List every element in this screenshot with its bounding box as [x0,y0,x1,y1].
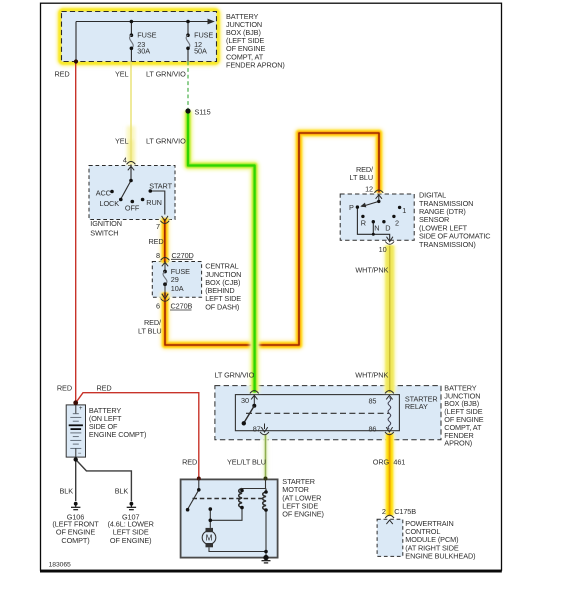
svg-text:87: 87 [253,424,261,433]
svg-text:4: 4 [123,155,127,164]
svg-text:183065: 183065 [49,562,71,569]
glow blob at ignition pin 4 [127,126,136,165]
svg-text:7: 7 [156,222,160,231]
svg-text:461: 461 [393,458,405,467]
starter relay outer box [215,386,441,440]
wire labels below relay [182,458,405,467]
relay dashed link [246,412,389,414]
contact N [372,220,375,223]
svg-text:2: 2 [382,507,386,516]
battery junction box BJB (top, highlighted) [62,12,217,62]
svg-text:OF ENGINE): OF ENGINE) [282,510,324,519]
svg-text:D: D [385,224,390,233]
svg-text:P: P [349,203,354,212]
starter motor entry dot YEL/LT BLU [264,477,268,481]
svg-text:FENDER APRON): FENDER APRON) [226,60,285,69]
connector C175B [394,507,416,516]
battery junction dot top [73,400,78,405]
wire WHT/PNK highlighted (DTR pin 10 to relay pin 85) [384,246,396,393]
svg-text:LT BLU: LT BLU [138,327,161,336]
border frame [40,3,502,571]
svg-text:OFF: OFF [125,203,140,212]
junction dot starter bottom rail [264,550,268,554]
DTR position labels [349,203,406,233]
winding end dots [240,489,268,512]
ignition pivot dot [129,179,133,183]
contact P [356,205,359,208]
DTR sensor box [340,194,414,240]
svg-text:M: M [206,534,213,543]
svg-text:−: − [78,451,82,457]
svg-text:30: 30 [241,396,249,405]
relay pin 85 connector [385,391,394,400]
ground G107 [127,502,136,510]
wire RED (BJB to battery) [75,64,77,403]
G107 caption [108,512,154,544]
svg-text:YEL: YEL [115,70,129,79]
relay caption [405,395,438,412]
starter motor internals [188,479,266,558]
CJB caption [205,262,241,312]
RUN contact [141,198,145,202]
svg-text:FUSE: FUSE [137,30,156,39]
motor M [202,528,216,547]
svg-text:RED: RED [57,383,72,392]
relay pin 87 connector [260,424,269,435]
svg-text:ENGINE BULKHEAD): ENGINE BULKHEAD) [405,551,475,560]
fuse F23 30A [130,30,157,55]
svg-text:29: 29 [171,275,179,284]
pin 8 label and connector C270D [156,251,194,260]
wire RED (battery to starter motor) [76,393,199,478]
pin 8 connector symbol [161,258,170,272]
battery internals [69,405,83,457]
svg-text:86: 86 [368,424,376,433]
svg-text:OF ENGINE): OF ENGINE) [110,536,152,545]
wire ORG 461 highlighted (relay pin 86 to PCM pin 2) [385,434,395,516]
PCM box [377,519,403,556]
svg-text:YEL/LT BLU: YEL/LT BLU [227,458,266,467]
contact D [382,220,385,223]
solenoid winding 1 [241,489,243,491]
wire LT GRN/VIO highlighted (S115 to relay pin 30) [188,111,255,393]
OFF contact [131,200,135,204]
G106 caption [52,512,99,544]
svg-text:LT GRN/VIO: LT GRN/VIO [146,70,186,79]
junction dot N line [372,233,375,236]
starter ground [262,555,271,563]
svg-text:30A: 30A [137,46,150,55]
contact 1 [398,206,401,209]
pin 6 connector symbol [161,284,170,301]
ignition switch caption [90,219,122,238]
DTR lever arrowhead [361,203,366,207]
svg-text:N: N [374,224,379,233]
svg-text:RED: RED [149,237,164,246]
relay pin 30 connector [250,391,259,406]
svg-text:LOCK: LOCK [100,199,120,208]
pin 4 connector [127,162,136,171]
svg-text:RED: RED [182,458,197,467]
relay switch [242,404,257,426]
wire BLK (battery to G107) [76,460,132,502]
contact 2 [392,215,395,218]
fuse F12 50A [186,30,213,55]
ACC contact [110,190,114,194]
svg-text:S115: S115 [195,107,211,116]
svg-text:C270D: C270D [172,251,194,260]
wire color labels row 2 [115,137,186,146]
PCM caption [405,519,475,560]
starter motor entry dot RED [197,477,201,481]
battery box [66,405,85,457]
svg-text:LT GRN/VIO: LT GRN/VIO [146,137,186,146]
relay coil [388,398,391,430]
svg-text:YEL: YEL [115,137,129,146]
contact R [361,215,364,218]
wire YEL (BJB fuse 23 to ignition pin 4) [130,62,132,163]
svg-text:10A: 10A [171,284,184,293]
svg-text:C175B: C175B [394,507,416,516]
fuse F29 10A (CJB) [163,267,190,293]
wire label RED/LT BLU (above DTR) [350,165,375,182]
svg-text:6: 6 [156,301,160,310]
svg-text:2: 2 [395,219,399,228]
svg-text:ACC: ACC [96,188,111,197]
battery bottom junction dot [74,457,78,461]
svg-text:TRANSMISSION): TRANSMISSION) [419,240,476,249]
junction dot fuse 23 tap [130,20,134,24]
svg-text:COMPT): COMPT) [61,536,89,545]
svg-text:12: 12 [365,184,373,193]
wire label RED/LT BLU (below CJB) [138,318,162,336]
pin 6 label and connector C270B [156,301,193,310]
starter relay inner box [235,395,399,431]
svg-text:RELAY: RELAY [405,402,428,411]
wire RED highlighted (ignition pin 7 to CJB) [160,218,170,263]
ground G106 [71,502,80,510]
wire RED/LT BLU highlighted (CJB to DTR pin 12) [165,133,379,345]
DTR internals [357,201,389,240]
central junction box CJB [152,262,201,298]
svg-text:10: 10 [379,245,387,254]
wire color labels row 1 [55,70,187,79]
svg-text:IGNITION: IGNITION [90,219,122,228]
svg-text:WHT/PNK: WHT/PNK [355,370,388,379]
svg-text:START: START [149,182,172,191]
wire LT GRN/VIO dashed (BJB fuse 12 to S115) [187,62,189,109]
svg-text:RUN: RUN [146,198,162,207]
LOCK contact [119,198,123,202]
starter caption [282,477,324,519]
starter switch contacts [186,488,212,522]
svg-text:R: R [361,219,366,228]
ignition position labels [96,182,173,213]
svg-text:1: 1 [402,206,406,215]
pin 7 connector [160,216,169,224]
svg-text:OF DASH): OF DASH) [205,302,239,311]
wire BLK (battery to G106) [75,460,77,502]
BJB label text [226,12,285,70]
starter motor box [181,479,278,557]
battery caption [89,406,146,439]
BJB label text (relay) [444,383,483,447]
wire YEL/LT BLU (relay pin 87 to starter motor) [263,435,269,478]
svg-text:ENGINE COMPT): ENGINE COMPT) [89,430,146,439]
svg-text:C270B: C270B [171,301,193,310]
ignition switch internals [121,165,165,215]
svg-text:50A: 50A [194,46,207,55]
BJB internal bus wire [76,22,210,62]
svg-text:WHT/PNK: WHT/PNK [355,265,388,274]
svg-text:+: + [79,406,83,412]
DTR pin 10 connector [385,237,394,245]
svg-text:RED: RED [55,70,70,79]
DTR pin 12 connector [374,190,383,201]
svg-text:8: 8 [156,251,160,260]
svg-text:BLK: BLK [60,487,74,496]
svg-text:APRON): APRON) [444,439,472,448]
svg-text:RED: RED [97,383,112,392]
svg-text:FUSE: FUSE [194,30,213,39]
starter solenoid dashed link [193,498,264,500]
svg-text:LT BLU: LT BLU [350,173,373,182]
svg-text:ORG: ORG [373,458,390,467]
svg-text:BLK: BLK [115,487,129,496]
svg-text:LT GRN/VIO: LT GRN/VIO [215,370,255,379]
DTR caption [419,191,490,249]
solenoid winding 2 [265,489,267,493]
DTR pivot dot [377,200,380,203]
relay pin 86 connector [385,427,394,435]
PCM pin 2 connector [385,515,394,524]
junction dot RED exit [74,59,78,63]
START contact [149,189,153,193]
junction dot fuse 12 tap [186,20,190,24]
bus arrowhead [208,19,215,25]
svg-text:SWITCH: SWITCH [90,229,118,238]
splice S115 [185,107,210,116]
ignition switch box [89,166,175,220]
svg-text:85: 85 [368,397,376,406]
